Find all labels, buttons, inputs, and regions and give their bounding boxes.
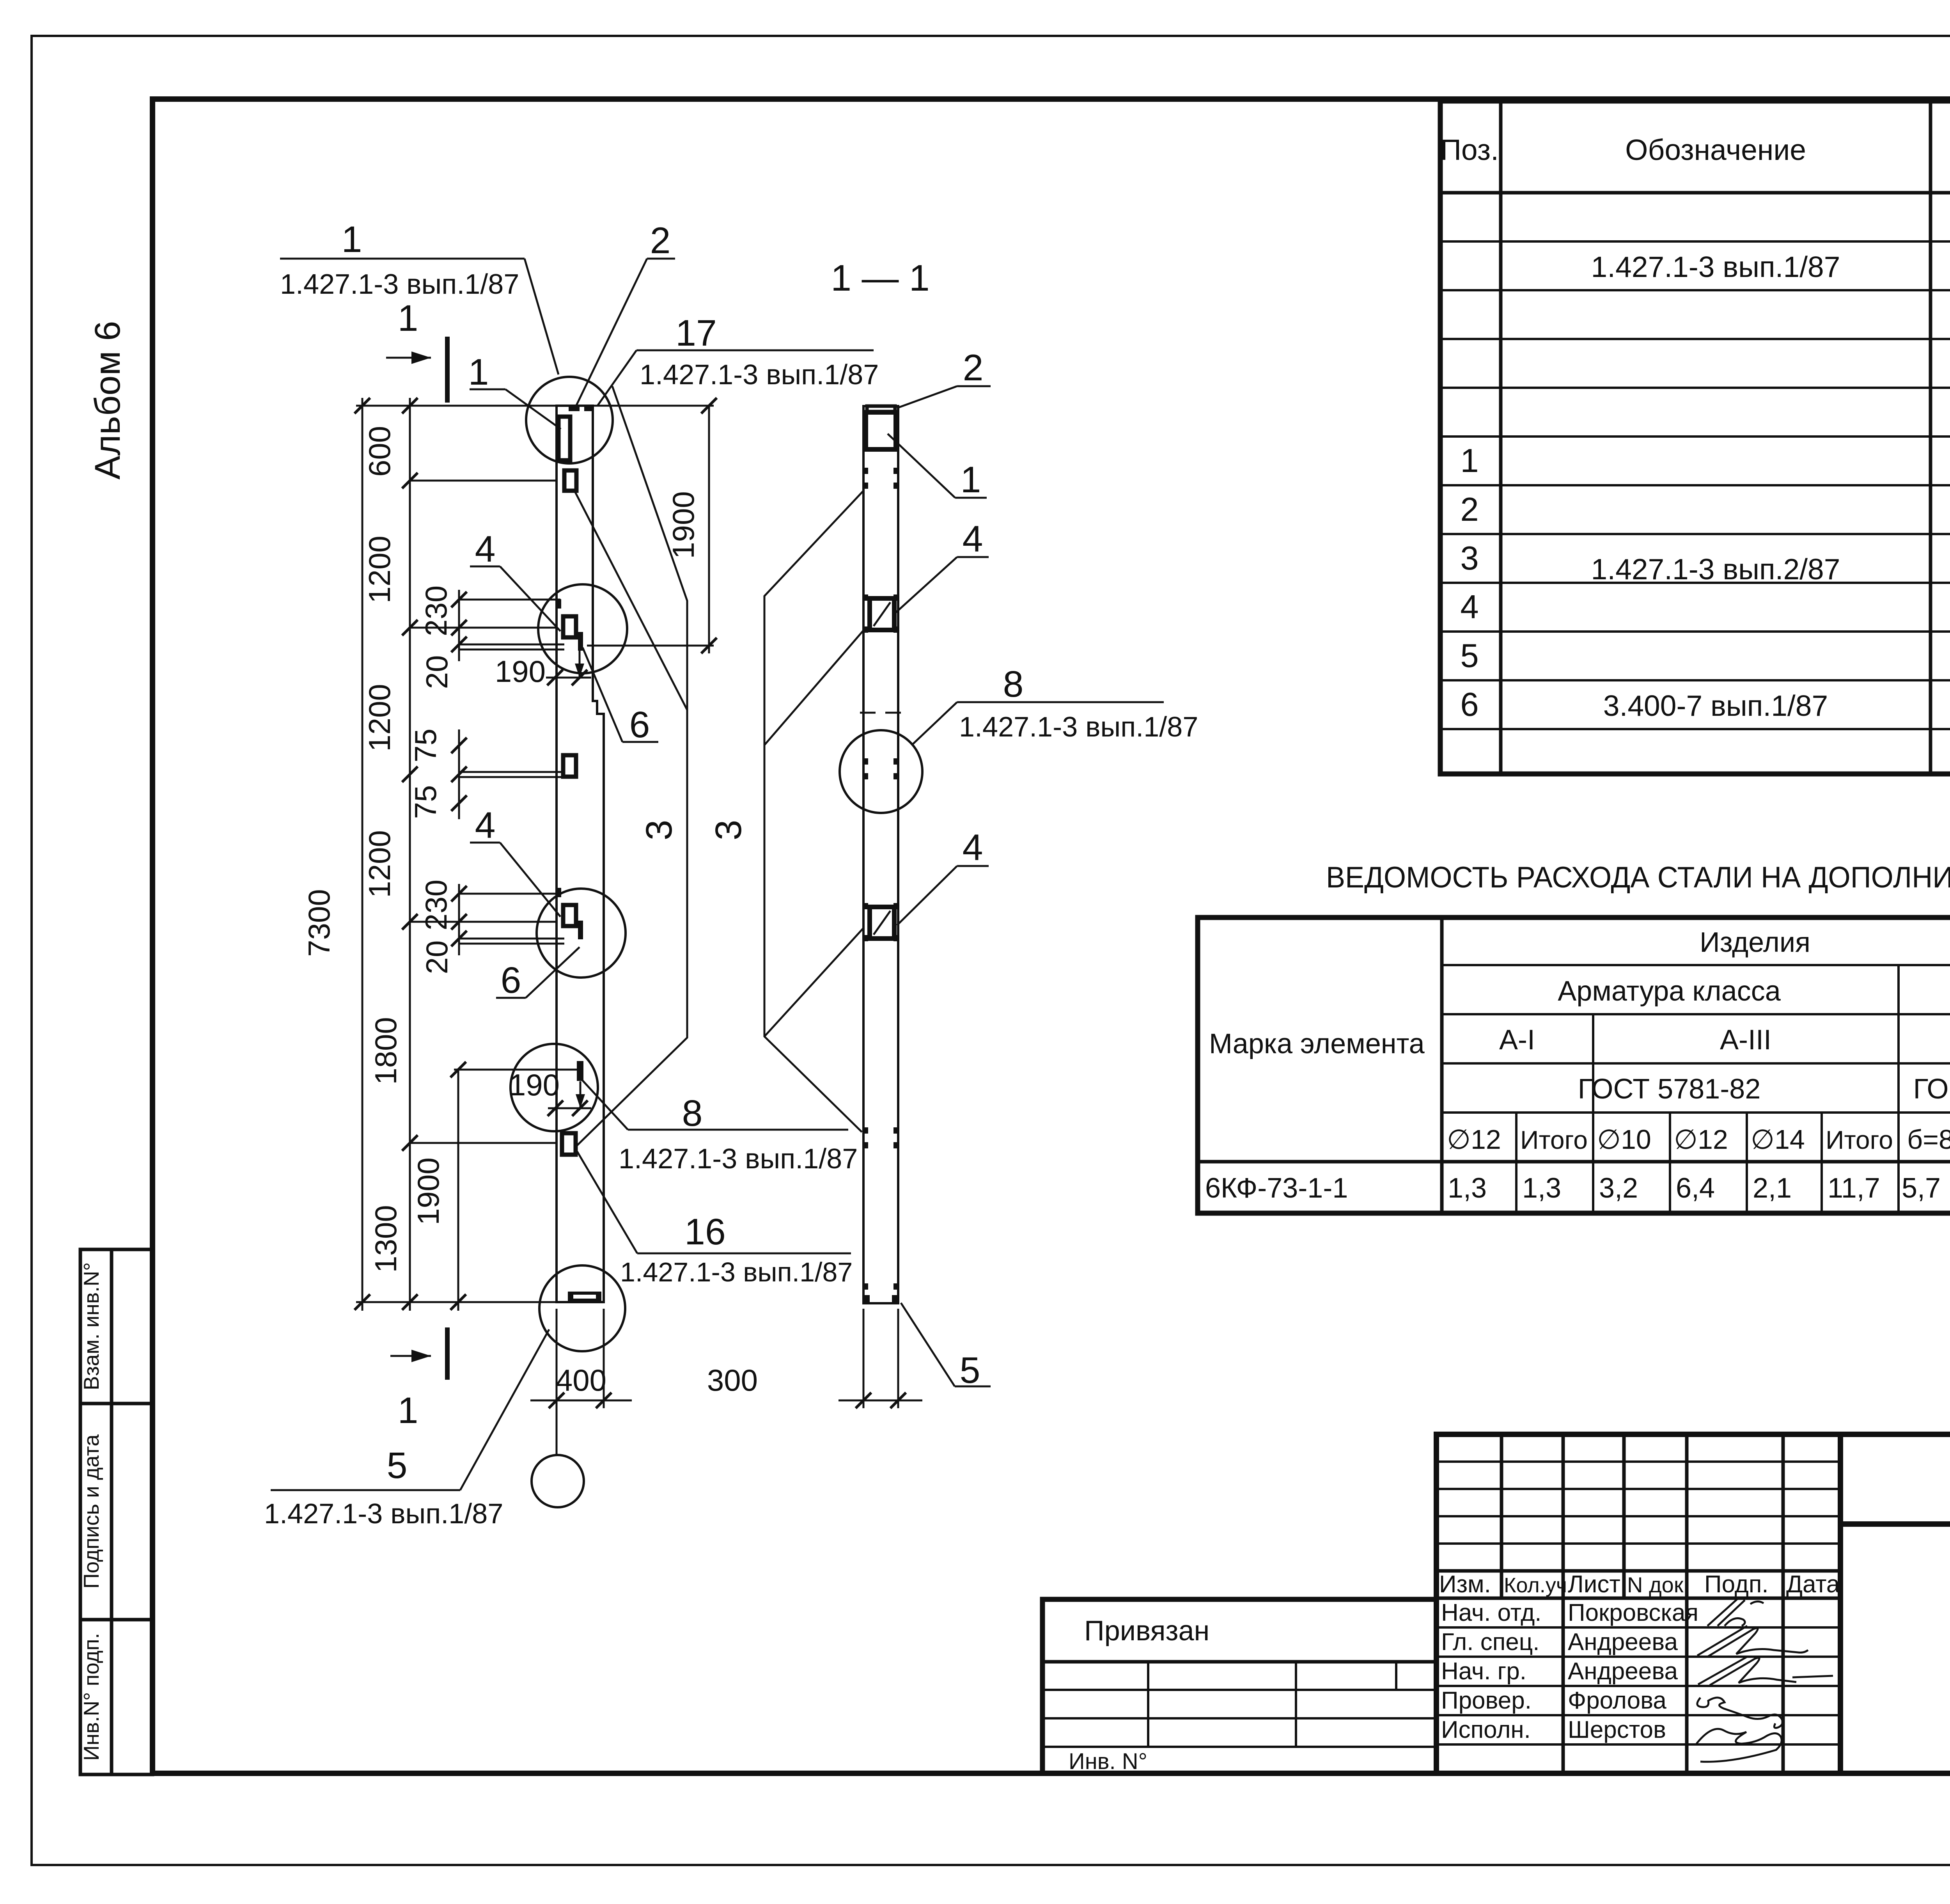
- svg-text:16: 16: [684, 1211, 726, 1253]
- svg-text:1200: 1200: [362, 684, 397, 752]
- label 16 with fraction: [577, 1152, 853, 1287]
- svg-text:Инв.N° подп.: Инв.N° подп.: [79, 1633, 103, 1761]
- svg-text:А-III: А-III: [1720, 1024, 1771, 1056]
- svg-text:6: 6: [629, 704, 650, 745]
- svg-text:600: 600: [362, 426, 397, 477]
- label 4 second: [470, 805, 560, 917]
- svg-text:5: 5: [960, 1350, 980, 1391]
- svg-text:1900: 1900: [666, 491, 700, 559]
- left sidebar stamps: [79, 1249, 152, 1774]
- svg-text:Привязан: Привязан: [1084, 1615, 1209, 1647]
- svg-text:300: 300: [707, 1363, 758, 1397]
- column front outline: [557, 406, 604, 1302]
- revision grid verticals: [1500, 1434, 1503, 1598]
- svg-text:Поз.: Поз.: [1440, 133, 1499, 166]
- svg-text:6: 6: [1460, 686, 1478, 723]
- embedded plate at 1800 section level: [577, 1061, 583, 1081]
- label 2 front: [575, 220, 675, 408]
- svg-text:190: 190: [509, 1068, 560, 1102]
- ext line 1900 bottom: [454, 1069, 578, 1071]
- dim line segments: [409, 398, 411, 1311]
- svg-text:Подпись и дата: Подпись и дата: [79, 1434, 103, 1589]
- detail circle top: [526, 377, 613, 463]
- detail circle 2400: [537, 889, 626, 978]
- svg-text:20: 20: [420, 940, 454, 974]
- section outline: [863, 406, 898, 1303]
- svg-text:2,1: 2,1: [1753, 1173, 1792, 1204]
- label 6 second: [496, 947, 580, 1001]
- svg-text:1200: 1200: [362, 830, 397, 898]
- svg-text:Итого: Итого: [1520, 1125, 1588, 1154]
- label 17 with fraction: [597, 312, 879, 406]
- label 5 section: [901, 1303, 991, 1391]
- svg-text:1.427.1-3 вып.1/87: 1.427.1-3 вып.1/87: [264, 1498, 503, 1530]
- revision grid horizontals: [1436, 1460, 1840, 1463]
- svg-text:1200: 1200: [362, 536, 397, 603]
- label 8 bottom left with fraction: [582, 1080, 858, 1175]
- 190 ticks group2: [548, 1100, 563, 1116]
- svg-text:1: 1: [961, 459, 981, 500]
- dim line 1900 top: [708, 406, 710, 653]
- svg-text:Инв. N°: Инв. N°: [1069, 1749, 1147, 1774]
- level line 3000: [410, 1142, 557, 1144]
- steel table horizontals: [1442, 964, 1950, 966]
- MN20 square 1: [870, 598, 894, 630]
- level line 2400: [410, 921, 557, 923]
- svg-text:4: 4: [475, 805, 496, 846]
- svg-text:400: 400: [556, 1363, 606, 1397]
- detail circle 1200: [538, 584, 627, 673]
- label 4 section 2: [897, 827, 989, 925]
- svg-text:11,7: 11,7: [1828, 1173, 1880, 1204]
- svg-text:5: 5: [387, 1445, 408, 1486]
- dim line 1900 bottom: [457, 1070, 459, 1311]
- svg-text:Изделия: Изделия: [1700, 927, 1810, 958]
- svg-text:∅10: ∅10: [1597, 1124, 1651, 1155]
- svg-text:Подп.: Подп.: [1704, 1571, 1769, 1598]
- svg-text:4: 4: [963, 827, 983, 868]
- svg-text:8: 8: [1003, 664, 1024, 705]
- svg-text:75: 75: [408, 729, 443, 763]
- section mark bottom: [390, 1355, 431, 1357]
- svg-text:Фролова: Фролова: [1568, 1687, 1666, 1714]
- weld marks: [863, 468, 898, 1290]
- bottom dims 400 and 300: [530, 1309, 922, 1455]
- svg-text:3: 3: [638, 820, 680, 841]
- svg-text:4: 4: [1460, 589, 1478, 626]
- section detail circle: [840, 730, 922, 813]
- section mark top: [386, 357, 431, 359]
- label 1 small front: [468, 351, 561, 429]
- svg-text:1,3: 1,3: [1448, 1173, 1487, 1204]
- spec table outline: [1440, 101, 1950, 774]
- svg-text:230: 230: [419, 586, 453, 636]
- svg-text:1.427.1-3 вып.1/87: 1.427.1-3 вып.1/87: [959, 712, 1198, 743]
- steel table verticals: [1440, 917, 1444, 1213]
- signatures: [1707, 1599, 1764, 1626]
- level line 1200: [410, 627, 557, 629]
- svg-text:Альбом 6: Альбом 6: [88, 321, 128, 480]
- svg-text:8: 8: [682, 1093, 703, 1134]
- label 1 top with fraction: [280, 219, 558, 374]
- 190 arrows: [546, 647, 591, 1108]
- embedded plate at 75/75 level: [563, 755, 576, 777]
- steel table outline: [1198, 917, 1950, 1213]
- svg-text:17: 17: [675, 312, 717, 354]
- svg-text:1: 1: [398, 298, 418, 339]
- level line bottom: [356, 1301, 557, 1303]
- MN20 square 2: [870, 907, 894, 939]
- level line top: [356, 405, 557, 407]
- svg-text:2: 2: [1460, 491, 1478, 528]
- svg-text:Гл. спец.: Гл. спец.: [1441, 1629, 1540, 1656]
- svg-text:∅12: ∅12: [1447, 1124, 1501, 1155]
- svg-text:1: 1: [468, 351, 489, 393]
- svg-text:230: 230: [419, 880, 453, 930]
- svg-text:1900: 1900: [411, 1157, 445, 1225]
- spec table columns: [1499, 101, 1503, 774]
- svg-text:N док: N док: [1627, 1572, 1684, 1597]
- svg-text:1 — 1: 1 — 1: [831, 257, 929, 299]
- svg-text:Нач. гр.: Нач. гр.: [1441, 1658, 1526, 1685]
- svg-text:1.427.1-3 вып.1/87: 1.427.1-3 вып.1/87: [280, 269, 519, 300]
- svg-text:Взам. инв.N°: Взам. инв.N°: [79, 1262, 103, 1390]
- svg-text:2: 2: [963, 347, 984, 389]
- svg-text:1.427.1-3 вып.1/87: 1.427.1-3 вып.1/87: [620, 1257, 853, 1287]
- funnel leaders pos3 section: [764, 491, 863, 1132]
- dim ticks: [355, 398, 717, 1310]
- svg-text:ВЕДОМОСТЬ РАСХОДА СТАЛИ НА: ВЕДОМОСТЬ РАСХОДА СТАЛИ НА ДОПОЛНИТЕЛЬНЫ…: [1326, 861, 1950, 894]
- dashed line: [860, 712, 901, 714]
- svg-text:1,3: 1,3: [1522, 1173, 1561, 1204]
- svg-text:∅14: ∅14: [1751, 1124, 1805, 1155]
- spec table header row: [1440, 191, 1950, 195]
- svg-text:Дата: Дата: [1786, 1571, 1840, 1598]
- label 1 section: [888, 434, 987, 500]
- svg-text:А-I: А-I: [1499, 1024, 1535, 1056]
- svg-text:Обозначение: Обозначение: [1625, 133, 1806, 166]
- svg-text:1800: 1800: [369, 1017, 403, 1085]
- svg-text:3: 3: [1460, 540, 1478, 577]
- ext line 1900 top: [587, 645, 714, 647]
- detail circle 1800: [511, 1044, 598, 1131]
- dim line 7300: [362, 398, 363, 1311]
- svg-text:ГОСТ 5781-82: ГОСТ 5781-82: [1578, 1074, 1761, 1105]
- 230 ext group 1: [459, 599, 560, 601]
- svg-text:1300: 1300: [369, 1205, 403, 1273]
- 190 ticks group1: [547, 670, 563, 685]
- bottom corner marks: [863, 1295, 870, 1303]
- level line 600: [410, 480, 557, 482]
- spec table row lines: [1440, 240, 1950, 243]
- svg-text:Марка элемента: Марка элемента: [1209, 1028, 1425, 1059]
- svg-text:6КФ-73-1-1: 6КФ-73-1-1: [1205, 1173, 1348, 1204]
- svg-text:75: 75: [408, 785, 443, 819]
- svg-text:Андреева: Андреева: [1568, 1629, 1678, 1656]
- svg-text:3.400-7 вып.1/87: 3.400-7 вып.1/87: [1603, 689, 1828, 722]
- svg-text:ГОСТ19903-74: ГОСТ19903-74: [1913, 1074, 1950, 1105]
- svg-text:Андреева: Андреева: [1568, 1658, 1678, 1685]
- svg-text:Исполн.: Исполн.: [1441, 1716, 1531, 1743]
- svg-text:4: 4: [475, 529, 496, 570]
- label 2 section: [897, 347, 991, 408]
- label 4 section 1: [895, 518, 989, 613]
- detail circle bottom: [539, 1265, 625, 1351]
- svg-text:7300: 7300: [302, 889, 336, 957]
- embedded plate at 2400 level: [563, 905, 576, 926]
- svg-text:б=8: б=8: [1907, 1124, 1950, 1155]
- embedded plate at 600 level: [564, 470, 576, 491]
- svg-text:4: 4: [963, 518, 983, 560]
- svg-text:Изм.: Изм.: [1439, 1571, 1491, 1598]
- label 5 front with fraction: [264, 1329, 549, 1530]
- privyazan block: [1042, 1599, 1436, 1774]
- svg-text:Лист: Лист: [1568, 1571, 1620, 1598]
- svg-text:1.427.1-3 вып.1/87: 1.427.1-3 вып.1/87: [1591, 250, 1840, 283]
- 75 double lines: [459, 771, 563, 773]
- svg-text:2: 2: [650, 220, 671, 261]
- svg-text:1.427.1-3 вып.1/87: 1.427.1-3 вып.1/87: [640, 359, 879, 390]
- svg-text:Провер.: Провер.: [1441, 1687, 1532, 1714]
- 230 ext group 2: [459, 893, 560, 895]
- svg-text:6: 6: [501, 960, 521, 1001]
- bottom plate MN7: [568, 1292, 601, 1301]
- svg-text:Шерстов: Шерстов: [1568, 1716, 1666, 1743]
- MN2 plate top: [867, 406, 895, 412]
- svg-text:Нач. отд.: Нач. отд.: [1441, 1599, 1542, 1626]
- svg-text:5,7: 5,7: [1902, 1173, 1941, 1204]
- svg-text:6,4: 6,4: [1676, 1173, 1715, 1204]
- embedded plate at 1200 level: [563, 616, 576, 637]
- section marks: [386, 298, 447, 1431]
- svg-text:Арматура класса: Арматура класса: [1558, 976, 1781, 1007]
- svg-text:1: 1: [1460, 442, 1478, 479]
- empty circle below: [532, 1455, 584, 1507]
- svg-text:5: 5: [1460, 637, 1478, 674]
- label 8 section with fraction: [913, 664, 1198, 744]
- svg-text:Кол.уч: Кол.уч: [1504, 1574, 1567, 1597]
- dimension lines left: [356, 398, 714, 1311]
- MN1 plate section: [866, 412, 896, 449]
- svg-text:3: 3: [708, 820, 749, 841]
- svg-text:1.427.1-3 вып.2/87: 1.427.1-3 вып.2/87: [1591, 553, 1840, 586]
- svg-text:∅12: ∅12: [1674, 1124, 1728, 1155]
- title block outline: [1436, 1434, 1950, 1773]
- svg-text:190: 190: [495, 654, 546, 688]
- funnel leaders pos3 front: [574, 386, 687, 1146]
- rotated dim texts: [302, 426, 749, 1273]
- svg-text:20: 20: [420, 655, 454, 689]
- svg-text:1.427.1-3 вып.1/87: 1.427.1-3 вып.1/87: [619, 1143, 858, 1175]
- label 6 first: [583, 648, 658, 745]
- svg-text:3,2: 3,2: [1599, 1173, 1638, 1204]
- embedded plate MN2 top marks: [569, 406, 580, 411]
- svg-text:Итого: Итого: [1826, 1125, 1893, 1154]
- embedded plate MN1 top: [558, 417, 570, 460]
- svg-text:1: 1: [342, 219, 362, 260]
- svg-text:Покровская: Покровская: [1568, 1599, 1698, 1626]
- svg-text:1: 1: [398, 1390, 418, 1431]
- label 4 first: [470, 529, 560, 631]
